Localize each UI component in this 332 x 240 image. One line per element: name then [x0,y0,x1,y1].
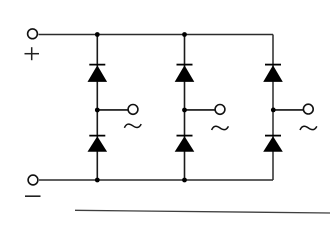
terminal AC2 [215,105,225,115]
wire branch leg 3 [272,35,274,181]
terminal DC+ [28,29,38,39]
junction top 1 [95,32,100,37]
diode D6 [263,136,283,152]
junction mid 3 [271,108,276,113]
diode D3 [175,65,195,82]
wire AC stub 3 [273,109,303,111]
junction top 2 [182,32,187,37]
diode D4 [175,136,195,152]
label - [25,195,41,197]
diode D1 [88,65,108,82]
diode D5 [263,65,283,82]
label + [25,47,40,60]
wire AC stub 2 [185,109,215,111]
wire top bus [39,34,274,36]
label AC3 ~ [300,126,317,130]
separator line [75,210,330,213]
wire branch leg 2 [184,35,186,181]
diode D2 [88,136,108,152]
junction bottom 2 [182,178,187,183]
wire AC stub 1 [97,109,128,111]
wire branch leg 1 [96,35,98,181]
terminal AC1 [128,105,138,115]
wire bottom bus [39,179,273,181]
terminal DC- [28,175,38,185]
terminal AC3 [303,104,313,114]
label AC2 ~ [212,126,229,130]
junction mid 2 [182,108,187,113]
junction bottom 1 [95,178,100,183]
junction mid 1 [95,108,100,113]
label AC1 ~ [124,124,141,128]
